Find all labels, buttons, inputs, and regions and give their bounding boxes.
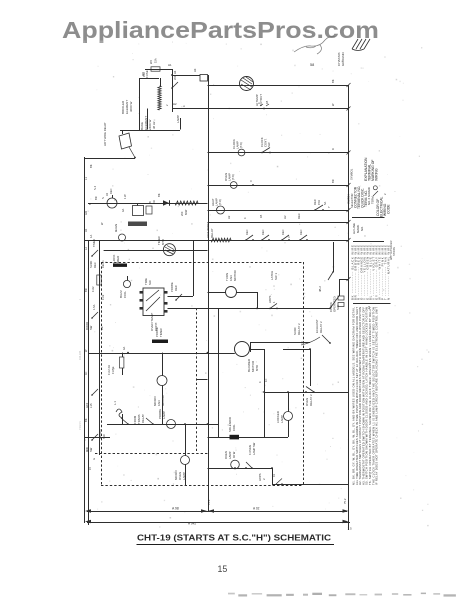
wire xyxy=(185,465,187,486)
svg-text:REC: REC xyxy=(297,213,301,219)
svg-text:TERM.: TERM. xyxy=(371,195,375,204)
oven lamp xyxy=(230,182,237,189)
svg-text:15A: 15A xyxy=(317,200,321,205)
caption underline xyxy=(137,544,335,546)
svg-text:H1: H1 xyxy=(168,63,172,67)
wire xyxy=(139,78,159,80)
svg-text:60W: 60W xyxy=(184,209,188,215)
wire xyxy=(193,240,195,296)
svg-text:TIMER: TIMER xyxy=(116,255,120,265)
svg-text:4C: 4C xyxy=(84,372,88,375)
inductor L1 xyxy=(116,409,122,418)
svg-text:200: 200 xyxy=(180,211,184,216)
svg-text:LAMP: LAMP xyxy=(236,141,240,149)
turn fan motor xyxy=(226,287,237,298)
svg-text:1 W: 1 W xyxy=(123,194,127,199)
svg-text:STRIPE: STRIPE xyxy=(393,247,396,256)
switch REC xyxy=(315,205,323,210)
solenoid coil xyxy=(230,435,240,440)
svg-text:IF RELAY DOES NOT OPERATE CHEC: IF RELAY DOES NOT OPERATE CHECK H1 AND L… xyxy=(375,307,379,485)
svg-text:3000 W: 3000 W xyxy=(129,101,133,112)
svg-text:75.2: 75.2 xyxy=(343,498,347,504)
wire xyxy=(237,292,258,294)
left bus 3 xyxy=(99,240,101,455)
bus L1 y85 xyxy=(208,85,349,87)
box terminals xyxy=(140,291,144,294)
svg-text:4 OVEN: 4 OVEN xyxy=(248,445,252,455)
latch switch wire xyxy=(333,242,335,272)
wire xyxy=(180,118,182,130)
svg-text:G: G xyxy=(92,458,96,460)
svg-text:SWITCH: SWITCH xyxy=(348,194,351,204)
bus y185 xyxy=(208,185,349,187)
clock control switch xyxy=(262,148,270,153)
switch H8PS xyxy=(270,303,277,308)
wire xyxy=(139,78,141,130)
svg-text:1: 1 xyxy=(272,301,276,303)
svg-text:LAMP: LAMP xyxy=(176,115,180,123)
svg-text:4A: 4A xyxy=(121,209,125,212)
right vertical bus xyxy=(348,85,350,530)
svg-text:SW.: SW. xyxy=(336,305,340,310)
svg-text:RELAY: RELAY xyxy=(141,414,145,423)
heater coil xyxy=(175,201,198,205)
svg-text:1W: 1W xyxy=(153,200,156,204)
svg-text:L1: L1 xyxy=(84,177,88,180)
svg-text:REC 1: REC 1 xyxy=(101,260,105,268)
svg-text:SW.: SW. xyxy=(102,434,106,439)
svg-text:H3: H3 xyxy=(193,68,197,72)
switch W2 xyxy=(172,82,178,88)
svg-text:H1: H1 xyxy=(84,228,88,232)
svg-text:40 W: 40 W xyxy=(232,451,236,458)
stub xyxy=(197,379,208,381)
wire y249.7 xyxy=(104,250,208,252)
terminal boxes right bus xyxy=(338,296,344,300)
broiler element coil xyxy=(158,86,161,110)
wire xyxy=(85,158,135,160)
latch switch xyxy=(328,272,333,280)
wire xyxy=(162,386,164,425)
svg-text:H2: H2 xyxy=(283,215,287,219)
svg-text:GROUND: GROUND xyxy=(341,51,345,66)
svg-text:DOOR: DOOR xyxy=(85,322,89,330)
svg-text:SURF: SURF xyxy=(89,260,93,268)
svg-text:REC: REC xyxy=(299,229,303,235)
svg-text:4: 4 xyxy=(182,105,186,107)
svg-text:G15: G15 xyxy=(85,402,89,408)
svg-text:BK: BK xyxy=(89,164,93,168)
switch xyxy=(282,235,289,240)
wire y203 xyxy=(88,203,208,205)
svg-text:15A: 15A xyxy=(154,58,158,63)
clock lamp xyxy=(238,149,245,156)
svg-text:WIRING: WIRING xyxy=(375,168,379,181)
svg-text:GR: GR xyxy=(84,211,88,215)
left switch 2 xyxy=(92,312,98,318)
switch xyxy=(262,235,269,240)
wire y468 xyxy=(208,468,273,470)
diode xyxy=(163,200,169,206)
scan mark top-left xyxy=(83,41,86,44)
switch xyxy=(300,235,307,240)
svg-text:A 042: A 042 xyxy=(188,522,196,526)
svg-text:W: W xyxy=(331,103,335,106)
svg-text:N 4: N 4 xyxy=(93,185,97,190)
dim1 left arrow xyxy=(85,509,91,513)
svg-text:PRESS: PRESS xyxy=(78,421,82,430)
svg-text:58: 58 xyxy=(310,63,314,67)
svg-text:LAMP: LAMP xyxy=(228,451,232,459)
dimension line 2 xyxy=(87,522,350,524)
locked lamp xyxy=(284,412,293,421)
legend rule xyxy=(352,217,385,219)
svg-text:MW: MW xyxy=(85,447,89,452)
svg-text:COIL: COIL xyxy=(232,424,236,431)
svg-text:REC: REC xyxy=(174,285,178,291)
svg-text:H2: H2 xyxy=(227,215,231,219)
svg-text:Y: Y xyxy=(327,206,331,208)
micro switch xyxy=(121,418,128,424)
dimension line 1 xyxy=(87,511,347,513)
wire xyxy=(172,69,174,112)
hot wire relay xyxy=(119,133,132,149)
probe switch xyxy=(176,294,182,300)
switch H8PS2 xyxy=(276,479,282,485)
wire y437 xyxy=(85,437,111,439)
wire y342.5 xyxy=(250,342,310,344)
svg-text:TIMER: TIMER xyxy=(159,328,163,337)
svg-text:1C: 1C xyxy=(264,379,268,382)
oven lamp 40w xyxy=(231,460,240,469)
micro oven lamp xyxy=(181,456,190,465)
svg-text:1.5A: 1.5A xyxy=(92,304,96,310)
svg-text:4A: 4A xyxy=(122,347,126,350)
clock coil xyxy=(113,264,127,267)
svg-text:45: 45 xyxy=(149,201,152,204)
wire xyxy=(129,147,135,158)
svg-text:NO.: NO. xyxy=(360,226,364,231)
svg-text:LAMP: LAMP xyxy=(280,415,284,423)
bus y152.5 xyxy=(208,152,349,154)
buzzer xyxy=(119,234,126,241)
wire y392 xyxy=(264,392,348,394)
handwritten squiggle xyxy=(294,36,335,54)
svg-text:RM-185: RM-185 xyxy=(78,350,82,360)
svg-text:SELECTOR: SELECTOR xyxy=(350,194,354,208)
svg-text:H4: H4 xyxy=(173,70,177,74)
oven control box xyxy=(143,288,164,316)
wire xyxy=(172,75,200,77)
relay coil xyxy=(152,340,168,344)
svg-text:BR: BR xyxy=(331,179,335,183)
svg-text:F-02: F-02 xyxy=(101,294,105,300)
probe lamp xyxy=(167,420,176,429)
micro fan motor xyxy=(157,376,167,386)
wire xyxy=(288,421,290,438)
node H1 xyxy=(171,74,173,76)
svg-text:W: W xyxy=(100,222,104,225)
svg-text:2: 2 xyxy=(165,104,169,106)
svg-text:L.1: L.1 xyxy=(113,401,117,405)
svg-text:I: I xyxy=(78,299,82,300)
dim2 left arrow xyxy=(85,520,91,524)
svg-text:75.1: 75.1 xyxy=(207,499,211,505)
vertical bus x207 xyxy=(208,75,210,511)
clock operated switch xyxy=(330,296,339,308)
wire xyxy=(283,349,310,351)
left fuse xyxy=(97,275,101,285)
svg-text:(T-8): (T-8) xyxy=(218,199,222,205)
svg-text:MARK: MARK xyxy=(356,225,360,233)
node xyxy=(252,184,254,186)
wire xyxy=(250,349,265,351)
svg-text:REC: REC xyxy=(93,262,97,268)
svg-text:R: R xyxy=(331,148,335,150)
svg-text:TIMER: TIMER xyxy=(92,239,96,247)
wire xyxy=(310,349,312,386)
svg-text:1.5: 1.5 xyxy=(348,527,353,531)
resistor box xyxy=(133,206,144,216)
oven lamp switch xyxy=(246,462,252,468)
wire y424 xyxy=(107,424,219,426)
wire xyxy=(120,130,180,132)
svg-text:LAMP: LAMP xyxy=(162,411,166,419)
svg-text:HOT WIRE RELAY: HOT WIRE RELAY xyxy=(103,122,107,146)
svg-text:SW 1: SW 1 xyxy=(274,273,278,280)
svg-text:34: 34 xyxy=(105,193,109,196)
dark relay bar xyxy=(128,222,147,227)
footer remnant text xyxy=(228,593,235,595)
terminal block xyxy=(200,75,208,82)
wire xyxy=(147,109,149,130)
svg-text:1B: 1B xyxy=(259,215,263,218)
svg-text:F-02: F-02 xyxy=(91,286,95,292)
svg-text:BR: BR xyxy=(100,326,104,330)
svg-text:BR: BR xyxy=(94,196,98,200)
svg-text:REC: REC xyxy=(281,229,285,235)
svg-text:4: 4 xyxy=(250,179,252,183)
dial lamp xyxy=(107,198,117,208)
dim1 right arrow xyxy=(343,509,349,513)
ground symbol xyxy=(352,39,370,51)
wire xyxy=(168,308,331,310)
svg-text:RELAY 2: RELAY 2 xyxy=(319,321,323,333)
svg-text:AppliancePartsPros.com: AppliancePartsPros.com xyxy=(62,17,379,43)
switch xyxy=(246,235,253,240)
svg-text:RELAY: RELAY xyxy=(210,228,214,238)
svg-text:2: 2 xyxy=(262,478,266,480)
dim2 right arrow xyxy=(343,520,349,524)
wire xyxy=(122,414,124,424)
svg-text:LAMP: LAMP xyxy=(215,198,219,206)
svg-text:SW: SW xyxy=(89,325,93,330)
bus junction ticks xyxy=(347,83,351,87)
svg-text:4: 4 xyxy=(258,381,262,383)
svg-text:SYMBOL: SYMBOL xyxy=(350,168,354,180)
left switch 1 xyxy=(92,250,98,256)
color table bottom rule xyxy=(353,303,391,305)
svg-text:4B-2: 4B-2 xyxy=(318,286,322,292)
svg-text:NO. 4 SCREW: NO. 4 SCREW xyxy=(367,187,371,205)
svg-text:W2: W2 xyxy=(149,60,153,64)
svg-text:CHT-19 (STARTS AT S.C."H") SCH: CHT-19 (STARTS AT S.C."H") SCHEMATIC xyxy=(137,534,331,543)
wire xyxy=(218,308,220,437)
svg-text:W2: W2 xyxy=(173,75,177,80)
color table top rule xyxy=(353,241,384,243)
heat lamp xyxy=(217,206,225,214)
svg-text:REC: REC xyxy=(245,229,249,235)
svg-text:H2: H2 xyxy=(173,102,177,106)
svg-text:MTR: MTR xyxy=(255,365,259,371)
wire xyxy=(208,292,226,294)
svg-text:CODE: CODE xyxy=(387,204,391,214)
dashed box xyxy=(101,262,303,264)
svg-text:1A: 1A xyxy=(89,235,93,238)
svg-text:SW: SW xyxy=(89,447,93,452)
svg-text:REC: REC xyxy=(261,229,265,235)
left switch 4 xyxy=(92,434,98,440)
svg-text:RELAY 2: RELAY 2 xyxy=(309,394,313,406)
svg-text:BR: BR xyxy=(84,288,88,292)
wire xyxy=(264,349,266,437)
svg-text:MAGN: MAGN xyxy=(114,224,118,232)
dim1 mid arrows xyxy=(201,509,207,513)
svg-text:A 02: A 02 xyxy=(253,507,260,511)
bus y240 xyxy=(85,240,349,242)
svg-text:38 H2: 38 H2 xyxy=(152,121,156,129)
svg-text:L15: L15 xyxy=(89,403,93,408)
wire y484 xyxy=(272,484,348,486)
svg-text:15: 15 xyxy=(218,564,228,574)
legend sym xyxy=(373,186,377,190)
svg-text:(T-6): (T-6) xyxy=(231,174,235,180)
svg-text:4: 4 xyxy=(243,217,247,219)
svg-text:LAMP: LAMP xyxy=(228,173,232,181)
wire xyxy=(162,353,164,376)
svg-text:FUSE: FUSE xyxy=(111,366,115,374)
svg-text:SW.: SW. xyxy=(148,280,152,285)
fuse F1 wire xyxy=(145,69,172,71)
svg-text:SW.: SW. xyxy=(267,142,271,147)
dashed inner vertical xyxy=(196,308,198,453)
svg-text:2: 2 xyxy=(383,193,387,195)
hi-temp cutout body xyxy=(240,77,254,91)
bus y210 xyxy=(208,210,349,212)
wire xyxy=(288,392,290,412)
wire xyxy=(185,424,187,456)
timer motor xyxy=(163,244,175,256)
svg-text:BK: BK xyxy=(157,193,161,197)
node xyxy=(263,108,265,110)
svg-text:LAMP SW: LAMP SW xyxy=(252,442,256,455)
left bus 2 xyxy=(88,240,90,521)
wire xyxy=(272,468,274,484)
wire y352 xyxy=(89,353,235,355)
left switch 3 xyxy=(92,389,98,395)
wire xyxy=(122,130,124,134)
svg-text:BK: BK xyxy=(84,418,88,422)
surf relay arc xyxy=(301,337,320,345)
buzz coil xyxy=(123,280,130,287)
fuse F1 xyxy=(151,67,160,71)
wire xyxy=(250,343,252,353)
svg-text:N: N xyxy=(88,203,92,205)
svg-text:W2: W2 xyxy=(141,72,145,76)
blower motor xyxy=(235,342,250,357)
wire xyxy=(168,296,194,298)
svg-text:COIL: COIL xyxy=(123,291,127,298)
svg-text:(T-6): (T-6) xyxy=(239,142,243,148)
svg-text:N: N xyxy=(101,197,105,199)
svg-text:5A: 5A xyxy=(323,202,327,205)
left bus xyxy=(84,157,86,523)
hot wire relay heater xyxy=(211,238,231,242)
dashed line y453 xyxy=(95,453,208,455)
exhaust relay switch xyxy=(322,335,330,343)
bus y222 xyxy=(208,222,349,224)
wire xyxy=(257,292,259,308)
svg-text:1B: 1B xyxy=(265,101,269,104)
svg-text:BK: BK xyxy=(331,79,335,83)
box contacts xyxy=(146,297,160,311)
svg-text:MTR: MTR xyxy=(161,239,165,245)
fuse F-02 xyxy=(120,357,124,368)
svg-text:MOTOR: MOTOR xyxy=(233,270,237,281)
oven relay switch xyxy=(306,387,314,393)
wire xyxy=(208,437,230,439)
extension line left xyxy=(88,495,90,525)
resistor box 2 xyxy=(146,206,152,214)
svg-text:REC: REC xyxy=(109,188,113,194)
svg-text:RELAY 2: RELAY 2 xyxy=(297,323,301,335)
svg-text:A 98: A 98 xyxy=(172,507,179,511)
bus L2 y108.5 xyxy=(173,108,348,110)
